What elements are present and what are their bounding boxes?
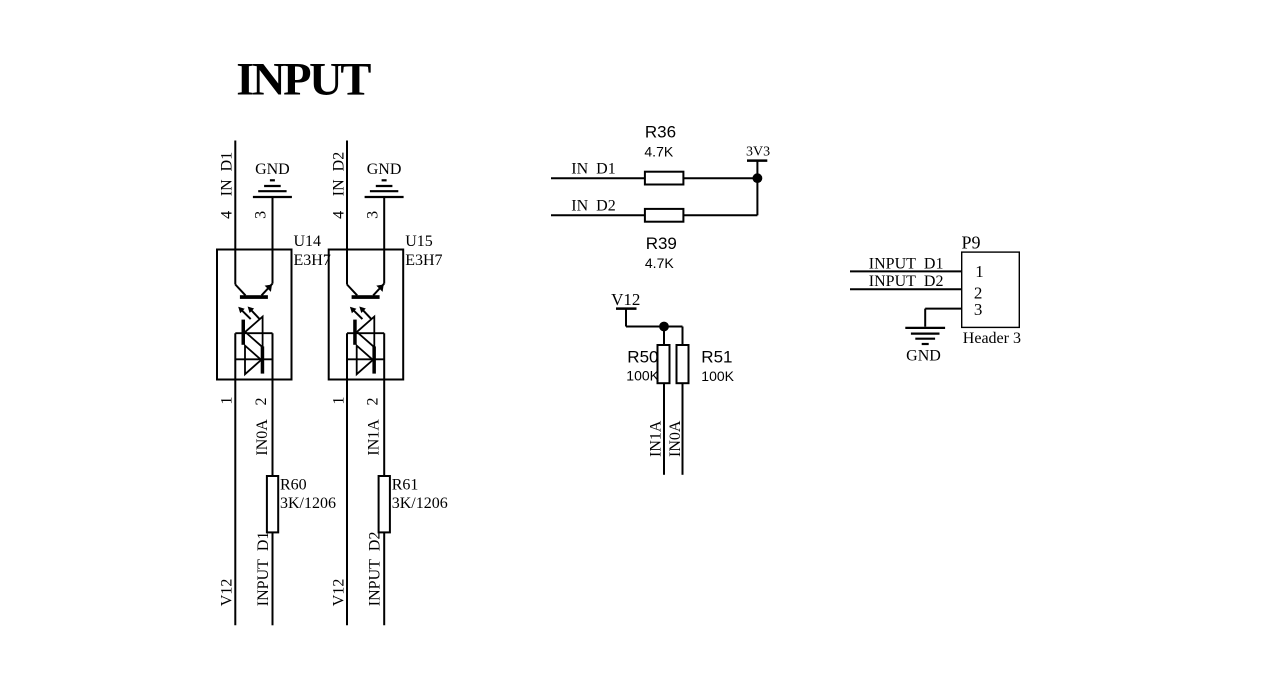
wire node to R50 <box>663 327 665 346</box>
wire P9 pin3 to ground <box>925 308 962 310</box>
wire pin2 net INPUT_D2 (lower segment) <box>383 532 385 625</box>
wire pin3 to ground <box>383 197 385 284</box>
svg-text:E3H7: E3H7 <box>294 252 331 269</box>
svg-text:3: 3 <box>974 300 983 319</box>
svg-text:IN D1: IN D1 <box>219 152 236 196</box>
wire pin3 to ground <box>272 197 274 284</box>
resistor R39 4.7K <box>645 209 684 271</box>
junction node at 3V3 <box>753 173 763 183</box>
wire net INPUT_D2 to P9 pin2 <box>850 288 962 290</box>
power 3V3 <box>746 145 770 179</box>
svg-text:4: 4 <box>219 211 236 219</box>
svg-text:3V3: 3V3 <box>746 145 770 160</box>
wire net INPUT_D1 to P9 pin1 <box>850 270 962 272</box>
wire net IN_D2 <box>551 214 645 216</box>
svg-text:IN1A: IN1A <box>648 420 665 457</box>
svg-text:3K/1206: 3K/1206 <box>280 495 336 512</box>
svg-text:R39: R39 <box>646 234 677 253</box>
resistor R50 100K <box>626 345 669 383</box>
svg-text:V12: V12 <box>611 290 640 309</box>
svg-text:P9: P9 <box>962 233 981 253</box>
svg-text:4: 4 <box>330 211 347 219</box>
wire R36 to 3V3 node <box>683 177 757 179</box>
resistor R51 100K <box>677 345 735 384</box>
svg-text:IN D1: IN D1 <box>571 161 615 178</box>
svg-text:2: 2 <box>365 398 382 406</box>
svg-text:4.7K: 4.7K <box>645 255 674 271</box>
svg-text:Header 3: Header 3 <box>963 330 1021 347</box>
svg-text:GND: GND <box>906 348 941 365</box>
svg-text:2: 2 <box>253 398 270 406</box>
svg-text:IN0A: IN0A <box>667 420 684 457</box>
svg-text:GND: GND <box>367 161 402 178</box>
junction node above R50 <box>659 322 669 332</box>
svg-text:INPUT D1: INPUT D1 <box>255 532 272 607</box>
wire pin4 net IN_D2 <box>346 141 348 285</box>
svg-text:R36: R36 <box>645 123 676 142</box>
ground GND at U15 pin 3 <box>365 161 404 197</box>
wire pin1 net V12 <box>346 333 348 625</box>
svg-text:3: 3 <box>364 211 381 219</box>
svg-text:R60: R60 <box>280 476 307 493</box>
wire pin1 net V12 <box>234 333 236 625</box>
svg-text:IN D2: IN D2 <box>571 198 615 215</box>
wire pin2 net INPUT_D2 (upper segment) <box>383 333 385 476</box>
svg-text:R50: R50 <box>627 347 658 366</box>
wire node to R51 <box>682 327 684 346</box>
ground GND at P9 pin 3 <box>905 328 945 365</box>
svg-text:INPUT D2: INPUT D2 <box>869 273 944 290</box>
svg-text:1: 1 <box>330 397 347 405</box>
svg-text:1: 1 <box>219 397 236 405</box>
wire net IN_D1 <box>551 177 645 179</box>
svg-text:3K/1206: 3K/1206 <box>392 495 448 512</box>
wire R39 to 3V3 node <box>683 214 757 216</box>
svg-text:INPUT: INPUT <box>236 55 371 106</box>
svg-text:IN0A: IN0A <box>254 419 271 456</box>
resistor R61 3K/1206 <box>379 476 448 532</box>
svg-text:INPUT D1: INPUT D1 <box>869 255 944 272</box>
ground GND at U14 pin 3 <box>253 161 292 197</box>
svg-text:1: 1 <box>975 262 984 281</box>
svg-text:U15: U15 <box>405 233 433 250</box>
optocoupler U14 (E3H7) <box>217 250 292 380</box>
wire pin4 net IN_D1 <box>234 141 236 285</box>
svg-text:V12: V12 <box>219 579 236 607</box>
svg-text:IN1A: IN1A <box>366 419 383 456</box>
svg-text:V12: V12 <box>330 579 347 607</box>
svg-text:U14: U14 <box>294 233 322 250</box>
wire V12 to R50/R51 <box>626 326 683 328</box>
optocoupler U15 (E3H7) <box>329 250 404 380</box>
wire R51 to IN0A <box>682 383 684 475</box>
svg-text:E3H7: E3H7 <box>405 252 442 269</box>
connector P9 Header 3 <box>962 252 1020 327</box>
wire pin2 net INPUT_D1 (lower segment) <box>272 532 274 625</box>
svg-text:100K: 100K <box>626 367 659 383</box>
svg-text:INPUT D2: INPUT D2 <box>367 532 384 607</box>
svg-text:IN D2: IN D2 <box>330 152 347 196</box>
svg-text:R51: R51 <box>701 347 732 366</box>
svg-text:100K: 100K <box>701 368 734 384</box>
power V12 <box>611 290 640 326</box>
resistor R36 4.7K <box>644 123 683 185</box>
resistor R60 3K/1206 <box>267 476 336 532</box>
svg-text:3: 3 <box>253 211 270 219</box>
wire R50 to IN1A <box>663 383 665 475</box>
svg-text:GND: GND <box>255 161 290 178</box>
svg-text:4.7K: 4.7K <box>644 143 673 159</box>
wire pin2 net INPUT_D1 (upper segment) <box>272 333 274 476</box>
svg-text:R61: R61 <box>392 476 419 493</box>
